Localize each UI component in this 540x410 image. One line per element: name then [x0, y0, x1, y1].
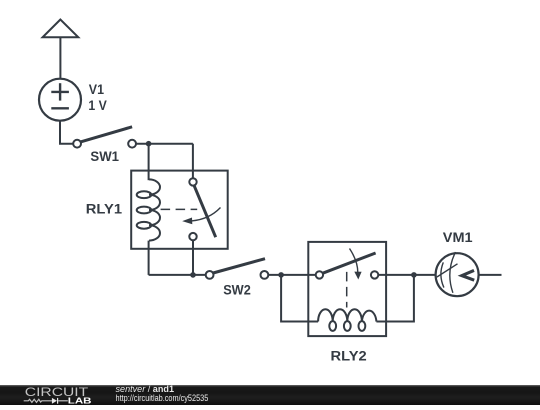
relay RLY1 box	[131, 171, 228, 249]
wire junction down to coil	[148, 144, 150, 181]
wire RLY1 switch bottom	[192, 240, 194, 275]
svg-text:VM1: VM1	[443, 230, 473, 245]
wire junction down to RLY2 coil right	[376, 275, 414, 322]
wire VM1 right stub	[479, 274, 502, 276]
power flag triangle	[43, 20, 79, 79]
svg-text:RLY1: RLY1	[86, 202, 123, 217]
svg-text:V1: V1	[89, 82, 105, 97]
wire V1 to SW1	[60, 121, 73, 144]
wire RLY1 coil bottom	[148, 241, 150, 275]
voltage source V1	[39, 79, 81, 121]
relay RLY2 contact	[316, 249, 379, 308]
switch SW1	[73, 127, 136, 148]
svg-text:SW1: SW1	[90, 149, 119, 164]
wire bottom rail to SW2	[149, 274, 206, 276]
wire junction down to RLY2 coil	[281, 275, 318, 322]
svg-text:LAB: LAB	[68, 396, 92, 406]
wire SW2 to RLY2	[268, 274, 315, 276]
relay RLY1 contact	[161, 178, 221, 240]
relay RLY1 coil	[137, 179, 160, 240]
node junction SW2/RLY2 coil	[278, 272, 284, 278]
voltmeter VM1	[436, 252, 479, 296]
node junction RLY1 bottom	[190, 272, 196, 278]
relay RLY2 coil	[318, 309, 376, 331]
node junction SW1/RLY1 coil	[146, 141, 152, 147]
svg-text:1 V: 1 V	[88, 98, 106, 113]
relay RLY2 box	[308, 242, 386, 336]
svg-text:RLY2: RLY2	[331, 348, 367, 363]
wire to RLY1 switch top	[192, 144, 194, 179]
wire SW1 to RLY1 top	[136, 143, 193, 145]
node junction RLY2/VM1	[411, 272, 417, 278]
V1 labels	[88, 82, 106, 113]
wire RLY2 to VM1	[378, 274, 435, 276]
svg-text:http://circuitlab.com/cy52535: http://circuitlab.com/cy52535	[116, 393, 209, 403]
switch SW2	[206, 259, 269, 279]
svg-text:SW2: SW2	[223, 283, 251, 298]
